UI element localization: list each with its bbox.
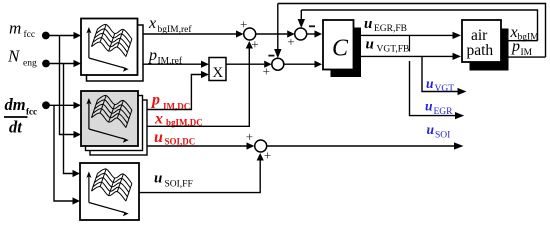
svg-text:+: + — [240, 17, 247, 32]
svg-text:fcc: fcc — [24, 29, 36, 40]
svg-text:u: u — [154, 129, 163, 146]
signal label p_IM,ref — [148, 47, 183, 67]
signal label u_VGT,FB — [366, 37, 410, 55]
summer S1 (x_bgIM,ref + x_bgIM,DC) — [240, 17, 259, 52]
wire u_SOI out — [267, 145, 454, 147]
wire x_bgIM out — [509, 40, 538, 42]
svg-text:u: u — [426, 76, 434, 91]
lookup map block 2 (gray DC map, stacked x3) — [81, 91, 147, 155]
wire u_SOI,DC to S4 — [147, 145, 247, 147]
wire branch N_eng down to map3 input1 — [64, 64, 73, 174]
summer S2 (x_bgIM feedback compare) — [287, 26, 315, 49]
wire x_bgIM,DC to S1 — [147, 48, 249, 126]
wire S2 to controller — [307, 33, 315, 35]
wire N_eng to map1 — [46, 63, 74, 65]
svg-text:+: + — [263, 64, 270, 79]
output label u_VGT (blue) — [426, 76, 454, 94]
summer S4 (u_SOI) — [246, 129, 272, 162]
wire feedback outer (p_IM to S3) — [278, 4, 546, 58]
wire x_bgIM,ref map1 to sum S1 — [144, 33, 237, 35]
signal label p_IM,DC (red) — [150, 92, 190, 112]
lookup map block 1 (setpoint map, stacked) — [81, 19, 143, 82]
svg-text:u: u — [364, 16, 372, 32]
air path block shadow — [470, 29, 509, 71]
svg-text:SOI,FF: SOI,FF — [165, 180, 193, 190]
wire p_IM,ref map1 to multiplier — [144, 63, 202, 65]
output label u_EGR (blue) — [425, 99, 453, 118]
svg-text:fcc: fcc — [26, 107, 37, 117]
wire feedback inner (x_bgIM to S2) — [301, 10, 537, 41]
input label N_eng — [7, 47, 37, 69]
node dot N_eng — [42, 60, 50, 68]
wire p_IM out — [509, 56, 546, 58]
svg-text:u: u — [366, 37, 374, 53]
svg-text:p: p — [148, 47, 157, 64]
svg-text:+: + — [246, 129, 253, 144]
svg-text:+: + — [264, 147, 271, 162]
air path block — [462, 20, 501, 62]
svg-text:N: N — [7, 47, 21, 66]
wire multiplier out to sum S3 — [226, 63, 264, 65]
svg-text:SOI: SOI — [435, 131, 450, 141]
output label u_SOI (blue) — [427, 122, 451, 141]
svg-text:path: path — [467, 42, 494, 59]
svg-text:C: C — [332, 36, 349, 62]
wire feedback inner drop into S2 — [300, 10, 302, 21]
svg-text:p: p — [150, 92, 160, 109]
svg-text:EGR,FB: EGR,FB — [374, 24, 407, 34]
svg-text:p: p — [511, 38, 520, 55]
lookup map block 3 (u_SOI,FF map) — [80, 163, 139, 220]
svg-text:x: x — [148, 15, 156, 32]
svg-text:u: u — [425, 99, 433, 114]
wire feedback outer drop into S3 — [277, 4, 279, 52]
wire S3 to controller — [284, 63, 315, 65]
wire dm_fcc to map2 — [46, 104, 74, 106]
signal label u_EGR,FB — [364, 16, 407, 34]
output label p_IM — [511, 38, 533, 58]
wire u_EGR,FB to air path — [361, 34, 453, 36]
wire u_EGR branch drop — [409, 35, 411, 51]
wire p_IM,DC to multiplier input2 — [147, 75, 201, 110]
input label dm_fcc/dt — [4, 95, 37, 137]
wire branch dm_fcc down to map3 input2 — [54, 105, 73, 201]
wire u_VGT branch drop — [422, 56, 458, 91]
input label m_fcc — [9, 19, 35, 41]
signal label x_bgIM,ref — [148, 15, 192, 35]
controller C block — [323, 20, 354, 70]
signal label u_SOI,FF — [154, 171, 193, 190]
wire u_SOI,FF map3 to S4 — [139, 160, 260, 193]
svg-text:EGR: EGR — [434, 107, 454, 117]
svg-text:SOI,DC: SOI,DC — [165, 137, 196, 147]
multiplier X — [209, 58, 226, 82]
summer S3 (p_IM feedback compare) — [263, 56, 284, 79]
svg-text:x: x — [154, 111, 163, 128]
node dot dm_fcc — [42, 101, 50, 109]
svg-text:dt: dt — [9, 118, 22, 137]
wire m_fcc to map1 — [46, 35, 74, 37]
svg-text:u: u — [154, 171, 162, 187]
signal label x_bgIM,DC (red) — [154, 111, 203, 128]
svg-text:m: m — [9, 19, 21, 38]
svg-text:eng: eng — [23, 59, 37, 69]
node dot m_fcc — [42, 32, 50, 40]
wire S1 to S2 — [256, 33, 288, 35]
wire branch m_fcc down to map2 input2 — [60, 36, 74, 135]
controller C block shadow — [331, 28, 362, 78]
svg-text:u: u — [427, 122, 435, 137]
svg-text:+: + — [287, 34, 294, 49]
output label x_bgIM — [510, 24, 540, 43]
svg-text:dm: dm — [5, 95, 26, 114]
wire u_VGT,FB to air path — [361, 55, 453, 57]
svg-text:VGT: VGT — [435, 84, 455, 94]
svg-text:+: + — [251, 37, 258, 52]
signal label u_SOI,DC (red) — [154, 129, 195, 147]
svg-text:X: X — [212, 65, 223, 81]
svg-text:VGT,FB: VGT,FB — [377, 45, 410, 55]
